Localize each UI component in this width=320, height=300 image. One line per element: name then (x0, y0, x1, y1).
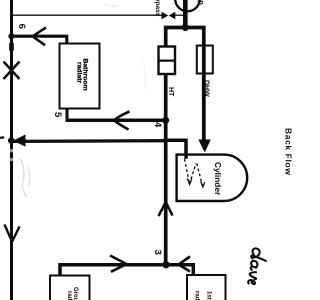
svg-text:Back Flow: Back Flow (284, 128, 294, 175)
svg-text:5: 5 (52, 112, 63, 118)
svg-text:rads: rads (194, 291, 200, 300)
svg-text:HT: HT (167, 87, 174, 97)
svg-text:bypass: bypass (154, 0, 161, 17)
svg-text:rads: rads (66, 291, 72, 300)
svg-text:Cylinder: Cylinder (213, 162, 223, 196)
svg-text:6: 6 (16, 24, 27, 29)
svg-text:radiatr: radiatr (76, 62, 83, 84)
svg-text:DHW: DHW (203, 80, 210, 97)
svg-text:4: 4 (152, 122, 163, 128)
svg-text:p: p (197, 0, 206, 5)
svg-text:3: 3 (152, 250, 163, 255)
svg-text:1st: 1st (206, 291, 212, 300)
